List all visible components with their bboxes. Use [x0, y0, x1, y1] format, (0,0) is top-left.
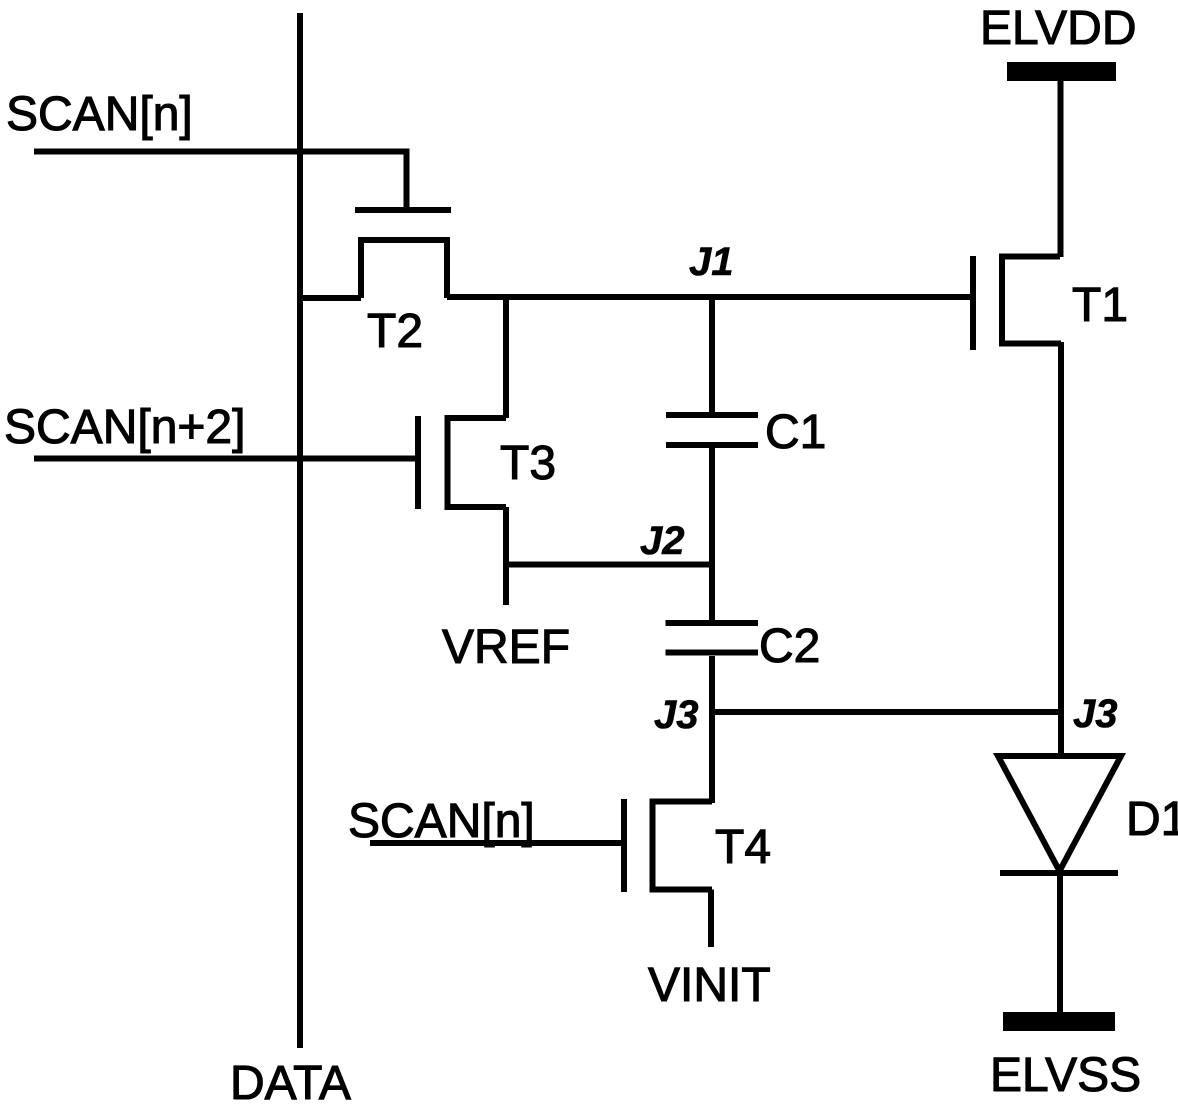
wire J1 down to C1 top plate: [709, 297, 715, 412]
wire C1 bottom plate to J2: [709, 448, 715, 565]
svg-text:C2: C2: [759, 620, 820, 673]
svg-text:J1: J1: [689, 240, 734, 284]
svg-text:T2: T2: [367, 305, 423, 358]
power ELVDD bar symbol: [1007, 62, 1116, 81]
svg-text:ELVSS: ELVSS: [990, 1049, 1141, 1102]
wire ELVDD to T1 source: [1058, 79, 1064, 257]
svg-text:D1: D1: [1126, 793, 1178, 846]
wire DATA to T2 source: [300, 295, 361, 301]
svg-text:ELVDD: ELVDD: [980, 2, 1137, 55]
transistor T3: [418, 416, 506, 509]
wire T3 source down to VREF terminal: [503, 507, 509, 605]
transistor T4: [624, 799, 712, 892]
wire T4 source down to VINIT terminal: [708, 890, 714, 948]
wire node J3 horizontal: [712, 709, 1061, 715]
svg-text:SCAN[n]: SCAN[n]: [348, 795, 535, 848]
wire SCAN[n] top net to T2 gate: [34, 152, 407, 208]
wire node J2 horizontal: [506, 562, 712, 568]
wire C2 bottom to J3 and T4 drain: [709, 656, 715, 803]
svg-text:J3: J3: [654, 693, 699, 737]
wire DATA vertical line: [297, 13, 303, 1048]
svg-text:DATA: DATA: [230, 1057, 351, 1104]
svg-text:J2: J2: [640, 519, 685, 563]
transistor T1: [973, 256, 1061, 350]
svg-text:SCAN[n]: SCAN[n]: [6, 88, 193, 141]
svg-text:J3: J3: [1073, 692, 1118, 736]
svg-text:VINIT: VINIT: [648, 959, 771, 1012]
transistor T2: [355, 210, 451, 298]
svg-text:T1: T1: [1072, 279, 1128, 332]
wire J1 wire down to T3 drain: [503, 297, 509, 418]
svg-text:T3: T3: [500, 437, 556, 490]
wire node J1: T2 drain to T1 gate: [447, 294, 970, 300]
svg-text:C1: C1: [765, 406, 826, 459]
power ELVSS bar symbol: [1003, 1012, 1115, 1031]
wire D1 cathode to ELVSS: [1057, 873, 1063, 1012]
svg-text:T4: T4: [715, 821, 771, 874]
svg-text:VREF: VREF: [442, 621, 570, 674]
diode D1: [998, 756, 1121, 873]
svg-text:SCAN[n+2]: SCAN[n+2]: [4, 401, 245, 454]
wire SCAN[n+2] net to T3 gate: [34, 456, 415, 462]
capacitor C1: [666, 415, 758, 445]
wire SCAN[n] bottom net to T4 gate: [370, 840, 624, 846]
capacitor C2: [666, 623, 759, 653]
wire T1 drain down to D1 anode: [1058, 342, 1064, 756]
wire J2 down to C2 top plate: [709, 565, 715, 621]
